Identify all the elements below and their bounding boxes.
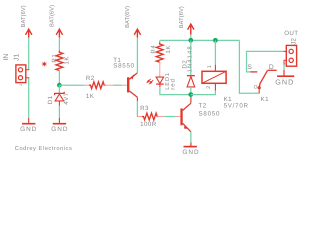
wire S contact to J2 — [247, 51, 284, 72]
svg-text:K1: K1 — [261, 96, 270, 103]
wire BAT to R1 — [58, 38, 60, 53]
relay coil K1 5V/70R — [202, 65, 249, 110]
svg-text:R1: R1 — [51, 54, 58, 63]
diode D2 1N4148 — [182, 45, 195, 87]
svg-text:J1: J1 — [14, 54, 21, 61]
svg-text:D1: D1 — [47, 95, 54, 104]
svg-text:1: 1 — [207, 65, 213, 68]
svg-text:R2: R2 — [86, 75, 95, 82]
wire J1 pin2 to GND — [28, 78, 30, 119]
svg-text:S8050: S8050 — [199, 110, 221, 117]
supply symbol BAT(6V) #2 — [48, 5, 62, 38]
resistor R2 1K — [85, 75, 114, 100]
wire R4 to LED1 — [159, 62, 161, 77]
svg-text:S8550: S8550 — [113, 63, 135, 70]
svg-text:GND: GND — [20, 126, 37, 133]
svg-text:S: S — [247, 64, 252, 71]
svg-text:GND: GND — [51, 126, 68, 133]
svg-text:BAT(6V): BAT(6V) — [178, 6, 185, 28]
svg-text:1K: 1K — [165, 45, 172, 54]
svg-text:IN: IN — [3, 54, 10, 61]
svg-text:BAT(6V): BAT(6V) — [20, 5, 27, 27]
ground GND (T2) — [182, 143, 199, 156]
svg-text:100R: 100R — [140, 121, 157, 128]
zener diode D1 4V7 — [47, 92, 70, 105]
svg-text:R3: R3 — [140, 105, 149, 112]
resistor R3 100R — [138, 105, 165, 128]
LED LED1 red — [147, 72, 176, 90]
supply symbol BAT(6V) #1 — [20, 5, 32, 38]
ground GND (D1) — [51, 118, 68, 133]
svg-text:1K: 1K — [63, 56, 70, 65]
wire coil pin2 to junction — [191, 91, 216, 95]
svg-text:R4: R4 — [150, 45, 157, 54]
svg-text:4V7: 4V7 — [63, 92, 70, 105]
node junction coil pin1 — [213, 38, 218, 43]
connector J2 OUT — [284, 30, 299, 66]
svg-text:Codrey Electronics: Codrey Electronics — [15, 145, 73, 152]
connector J1 — [3, 54, 29, 86]
wire BAT3 to T1 emitter — [136, 38, 138, 73]
supply symbol BAT(6V) #3 — [124, 6, 141, 38]
svg-text:GND: GND — [275, 78, 294, 87]
wire LED1 to node, right to junction — [159, 84, 161, 87]
transistor T2 S8050 (NPN) — [180, 97, 220, 132]
svg-text:1N4148: 1N4148 — [186, 45, 193, 72]
wire junction to D2 — [190, 40, 192, 75]
resistor R4 1K — [150, 43, 172, 63]
svg-text:BAT(6V): BAT(6V) — [48, 5, 55, 27]
wire top rail down to switch pole — [239, 40, 259, 93]
svg-text:5V/70R: 5V/70R — [224, 102, 249, 109]
node junction D2/T2/relay — [188, 92, 193, 97]
wire T1 collector to R3 — [136, 101, 139, 116]
wire J1 pin1 to BAT rail — [28, 38, 30, 70]
svg-text:OUT: OUT — [284, 30, 298, 37]
svg-text:GND: GND — [182, 149, 199, 156]
wire R3 to T2 base — [164, 116, 175, 118]
transistor T1 S8550 (PNP) — [113, 57, 137, 101]
supply symbol BAT(6V) #4 — [178, 6, 194, 35]
svg-text:1K: 1K — [86, 93, 95, 100]
ground GND (J1) — [20, 118, 37, 133]
svg-text:BAT(6V): BAT(6V) — [124, 6, 131, 28]
node junction top rail / D2 — [188, 38, 193, 43]
wire coil pin1 — [214, 40, 216, 64]
svg-text:2: 2 — [19, 84, 23, 86]
wire R2 to T1 base — [113, 84, 121, 86]
wire node to R2 — [59, 84, 84, 86]
wire top rail y=40 — [160, 39, 240, 41]
wire T2 emitter to GND — [190, 132, 192, 143]
wire node to D1 — [58, 85, 60, 93]
svg-text:red: red — [169, 78, 176, 90]
wire BAT4 stub — [190, 35, 192, 41]
svg-text:T2: T2 — [199, 103, 207, 110]
relay switch K1 — [247, 64, 276, 103]
node junction R1/R2/D1 — [57, 83, 62, 88]
resistor R1 1K — [51, 51, 70, 71]
wire corner to R4 — [159, 40, 161, 44]
svg-text:O: O — [254, 85, 258, 91]
svg-text:2: 2 — [206, 86, 212, 89]
wire D1 to GND — [58, 101, 60, 106]
svg-text:D: D — [269, 64, 274, 71]
ground GND (J2) — [275, 70, 294, 87]
svg-text:J2: J2 — [290, 38, 297, 45]
wire R1 to node — [58, 71, 60, 86]
wire J2 pin1 to GND — [283, 65, 285, 71]
asterisk mark — [42, 62, 46, 67]
wire D2 to lower junction — [190, 87, 192, 95]
